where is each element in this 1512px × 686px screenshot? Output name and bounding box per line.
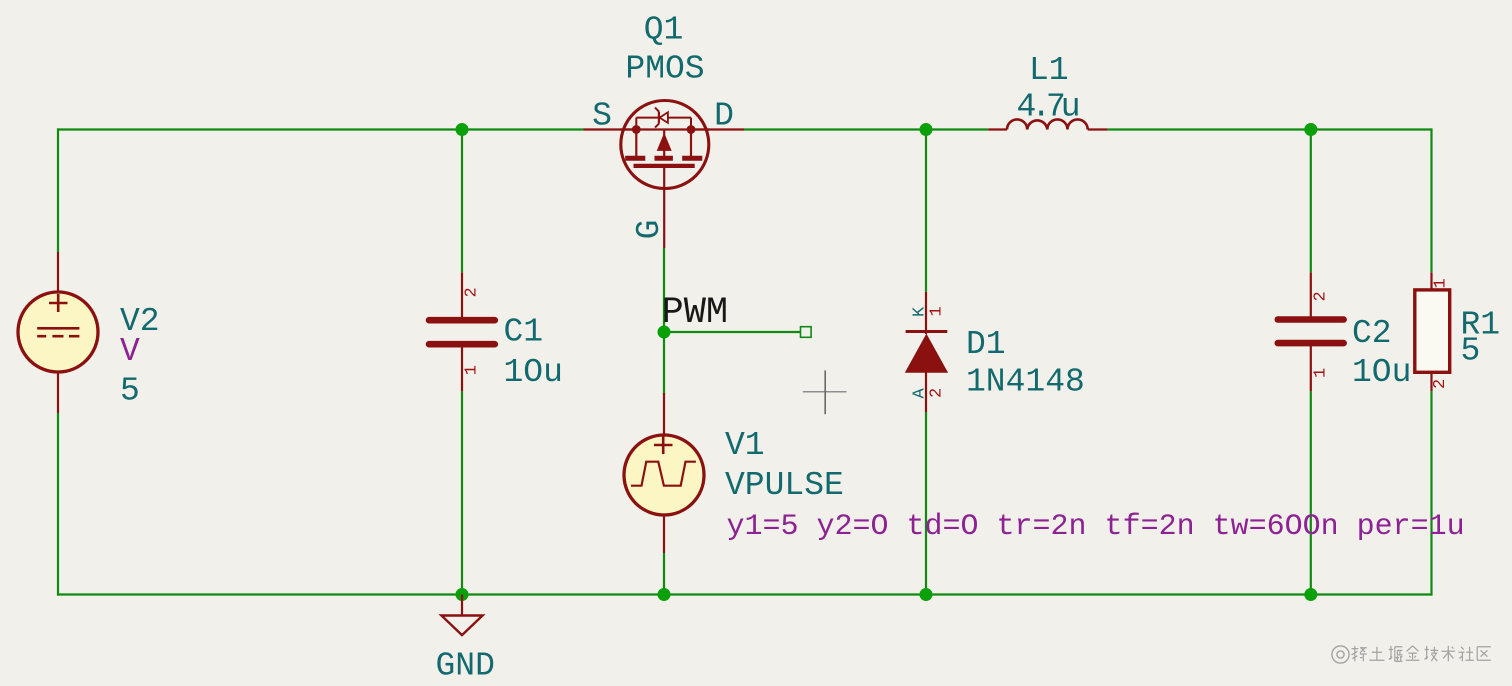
Q1 bulk arrow stem: [663, 130, 665, 157]
V1 pin - (bottom): [663, 513, 665, 553]
svg-text:2: 2: [1312, 291, 1331, 301]
R1 pin 1 wire: [1430, 272, 1432, 290]
Q1 S-D chord: [620, 128, 710, 130]
watermark hanzi 术: [1442, 646, 1456, 661]
Q1 body diode cathode hook bottom: [655, 124, 659, 128]
svg-text:1Ou: 1Ou: [504, 354, 563, 391]
svg-text:PMOS: PMOS: [625, 51, 704, 88]
svg-text:1Ou: 1Ou: [1352, 354, 1411, 391]
Q1 source riser up: [635, 118, 637, 130]
capacitor C2: [1278, 272, 1344, 391]
V2 battery dashed line: [37, 335, 46, 338]
watermark hanzi 社: [1459, 647, 1474, 661]
C2 top plate: [1278, 316, 1344, 323]
ground symbol: [441, 595, 482, 636]
wire Q1 gate to PWM node: [663, 248, 665, 332]
C2 pin 2 (top): [1310, 272, 1312, 318]
D1 pin 2 anode wire: [925, 371, 927, 412]
voltage source V2: [18, 252, 98, 413]
C1 pin 2 (top): [461, 272, 463, 319]
V2 plus sign: [49, 302, 68, 305]
wire left vertical upper (V2 branch): [57, 128, 59, 252]
cursor crosshair: [803, 370, 847, 414]
Q1 body diode triangle: [660, 112, 668, 123]
wire top rail left segment: [57, 128, 584, 130]
C1 top plate: [429, 317, 495, 324]
svg-text:D1: D1: [966, 326, 1006, 363]
wire C2 branch lower: [1310, 391, 1312, 594]
L1 pin 2 wire: [1088, 128, 1108, 130]
D1 pin 1 cathode wire: [925, 292, 927, 334]
Q1 source drop line: [635, 130, 637, 157]
svg-text:4.7u: 4.7u: [1017, 89, 1081, 126]
C1 bottom plate: [429, 341, 495, 348]
V1 pulse waveform: [631, 462, 696, 486]
R1 body rectangle: [1415, 290, 1450, 372]
junction node PWM: [658, 326, 671, 339]
svg-text:L1: L1: [1029, 52, 1069, 89]
D1 triangle: [905, 334, 948, 373]
svg-text:D: D: [714, 98, 734, 135]
wire C1 branch lower: [461, 391, 463, 594]
resistor R1: [1415, 272, 1450, 391]
GND triangle: [441, 616, 482, 636]
V1 pin + (top): [663, 393, 665, 437]
wire V1 bottom: [663, 553, 665, 595]
svg-text:G: G: [631, 220, 668, 240]
svg-text:2: 2: [928, 388, 947, 398]
PWM label anchor square: [801, 327, 812, 338]
inductor L1: [988, 119, 1107, 129]
svg-text:1: 1: [1312, 368, 1331, 378]
R1 pin 2 wire: [1430, 372, 1432, 391]
Q1 channel bar right: [682, 156, 702, 161]
Q1 drain riser up: [690, 118, 692, 130]
svg-text:5: 5: [1461, 333, 1481, 370]
svg-text:C1: C1: [504, 314, 544, 351]
watermark hanzi 技: [1425, 646, 1439, 661]
svg-text:1N4148: 1N4148: [966, 364, 1085, 401]
Q1 body diode top line left: [636, 117, 659, 119]
watermark hanzi 稀: [1351, 646, 1366, 661]
V2 pin 1 (top): [57, 252, 59, 294]
svg-text:y1=5 y2=O td=O tr=2n tf=2n tw=: y1=5 y2=O td=O tr=2n tf=2n tw=6OOn per=1…: [727, 510, 1465, 544]
Q1 channel bar middle: [655, 156, 673, 161]
svg-text:VPULSE: VPULSE: [725, 467, 844, 504]
svg-text:V: V: [120, 333, 140, 370]
wire top rail right segment (L1 to R1 corner): [1107, 128, 1431, 130]
L1 coil arcs: [1007, 119, 1088, 129]
junction C1 bottom: [456, 588, 469, 601]
V2 battery solid line: [37, 327, 79, 330]
Q1 source pin wire: [584, 128, 637, 130]
Q1 drain drop line: [690, 130, 692, 157]
svg-text:2: 2: [463, 287, 482, 297]
Q1 body diode cathode hook top: [655, 108, 659, 112]
wire right vertical upper (R1 branch): [1430, 128, 1432, 272]
junction C2 bottom: [1304, 588, 1317, 601]
watermark @稀土掘金技术社区: [1332, 646, 1491, 663]
voltage source V1: [624, 393, 704, 553]
wire PWM node to V1: [663, 332, 665, 393]
svg-text:1: 1: [1432, 278, 1451, 288]
V1 body circle: [624, 435, 704, 515]
Q1 gate bar: [634, 164, 695, 168]
C2 pin 1 (bottom): [1310, 344, 1312, 391]
wire D1 branch upper: [925, 130, 927, 292]
junction D1 top: [920, 123, 933, 136]
Q1 channel bar left: [625, 156, 645, 161]
capacitor C1: [429, 272, 495, 391]
wire C2 branch upper: [1310, 130, 1312, 273]
svg-text:2: 2: [1431, 379, 1450, 389]
wire top rail middle segment (D pin to L1): [744, 128, 988, 130]
svg-text:V1: V1: [725, 427, 765, 464]
svg-text:C2: C2: [1352, 315, 1392, 352]
svg-text:PWM: PWM: [662, 292, 729, 334]
wire PWM label stub: [664, 331, 801, 333]
wire bottom rail: [57, 593, 1433, 595]
junction C1 top: [456, 123, 469, 136]
wire right vertical lower (R1 branch): [1430, 391, 1432, 595]
wire D1 branch lower: [925, 412, 927, 595]
svg-text:1: 1: [463, 365, 482, 375]
Q1 bulk arrow head: [657, 133, 672, 151]
junction D1 bottom: [920, 588, 933, 601]
wire C1 branch upper: [461, 130, 463, 273]
Q1 body circle: [621, 101, 709, 189]
watermark hanzi 区: [1477, 647, 1491, 661]
Q1 body diode top line right: [668, 117, 691, 119]
junction V1 bottom: [658, 588, 671, 601]
watermark hanzi 土: [1369, 647, 1384, 661]
Q1 source junction dot: [632, 125, 641, 134]
svg-text:Q1: Q1: [644, 12, 684, 49]
C1 pin 1 (bottom): [461, 345, 463, 391]
V2 body circle: [18, 292, 98, 372]
V2 pin 2 (bottom): [57, 370, 59, 413]
transistor Q1 PMOS: [584, 101, 745, 249]
svg-text:GND: GND: [436, 648, 495, 685]
L1 pin 1 wire: [988, 128, 1007, 130]
Q1 gate pin wire: [663, 166, 665, 248]
svg-text:5: 5: [120, 373, 140, 410]
svg-text:1: 1: [928, 306, 947, 316]
V1 plus sign: [654, 444, 673, 447]
watermark hanzi 金: [1406, 646, 1420, 660]
junction C2 top: [1304, 123, 1317, 136]
C2 bottom plate: [1278, 340, 1344, 347]
diode D1: [905, 292, 948, 412]
watermark @ glyph: [1332, 646, 1349, 663]
Q1 drain pin wire: [691, 128, 744, 130]
D1 cathode bar: [906, 330, 948, 333]
watermark hanzi 掘: [1389, 646, 1403, 661]
Q1 body diode cathode bar: [658, 112, 660, 124]
GND stub wire: [461, 595, 463, 616]
svg-text:S: S: [592, 98, 612, 135]
Q1 drain junction dot: [687, 125, 696, 134]
wire left vertical lower (V2 branch): [57, 413, 59, 596]
